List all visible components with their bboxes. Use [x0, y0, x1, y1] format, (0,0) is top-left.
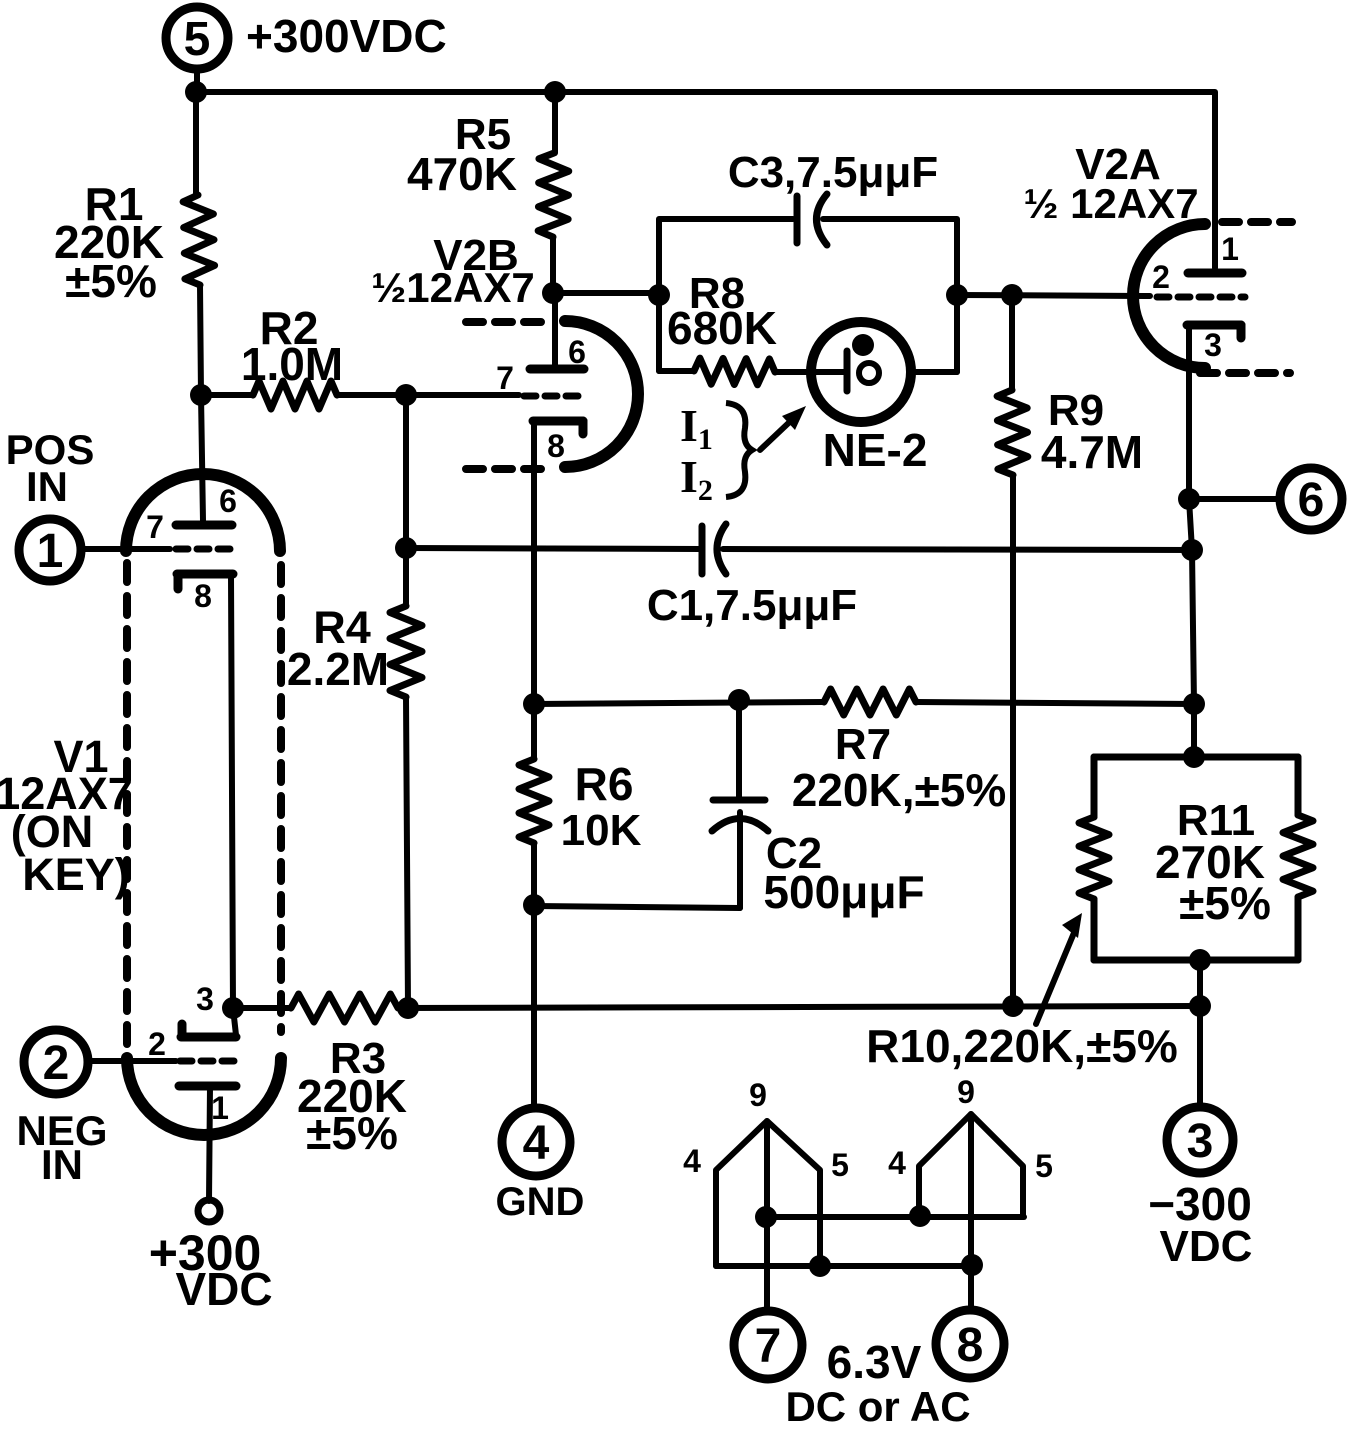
svg-text:C1,7.5μμF: C1,7.5μμF	[647, 581, 857, 630]
svg-text:220K,±5%: 220K,±5%	[792, 764, 1006, 816]
svg-text:+300VDC: +300VDC	[246, 10, 447, 62]
svg-text:VDC: VDC	[1160, 1222, 1253, 1271]
svg-text:R6: R6	[575, 758, 634, 810]
svg-text:GND: GND	[496, 1180, 585, 1224]
svg-text:1: 1	[37, 525, 64, 578]
svg-text:C3,7.5μμF: C3,7.5μμF	[728, 148, 938, 197]
svg-text:2: 2	[148, 1026, 166, 1062]
svg-text:5: 5	[1035, 1148, 1053, 1184]
svg-text:7: 7	[755, 1320, 782, 1373]
svg-text:5: 5	[831, 1147, 849, 1183]
svg-text:7: 7	[496, 360, 514, 396]
svg-text:2: 2	[1152, 259, 1170, 295]
svg-text:1: 1	[1221, 231, 1239, 267]
svg-text:3: 3	[196, 981, 214, 1017]
svg-text:VDC: VDC	[175, 1263, 272, 1315]
svg-text:8: 8	[194, 578, 212, 614]
svg-text:6.3V: 6.3V	[827, 1336, 922, 1388]
svg-text:R10,220K,±5%: R10,220K,±5%	[866, 1020, 1178, 1072]
svg-text:7: 7	[146, 509, 164, 545]
svg-text:±5%: ±5%	[65, 255, 157, 307]
svg-text:680K: 680K	[667, 302, 777, 354]
svg-text:6: 6	[1298, 474, 1325, 527]
svg-text:KEY): KEY)	[22, 849, 130, 900]
svg-text:2.2M: 2.2M	[287, 643, 389, 695]
svg-text:6: 6	[568, 334, 586, 370]
svg-text:4: 4	[523, 1117, 550, 1170]
svg-text:6: 6	[219, 483, 237, 519]
svg-text:3: 3	[1204, 327, 1222, 363]
svg-text:½12AX7: ½12AX7	[371, 264, 534, 311]
svg-text:½ 12AX7: ½ 12AX7	[1023, 180, 1198, 227]
svg-text:1: 1	[211, 1090, 229, 1126]
svg-text:3: 3	[1187, 1115, 1214, 1168]
svg-text:R7: R7	[835, 720, 891, 769]
svg-text:2: 2	[43, 1037, 70, 1090]
svg-text:8: 8	[957, 1319, 984, 1372]
svg-text:IN: IN	[26, 463, 68, 510]
svg-text:10K: 10K	[561, 806, 642, 855]
svg-text:4: 4	[888, 1145, 906, 1181]
svg-text:NE-2: NE-2	[823, 424, 928, 476]
svg-text:470K: 470K	[407, 148, 517, 200]
svg-text:9: 9	[749, 1077, 767, 1113]
svg-text:9: 9	[957, 1074, 975, 1110]
svg-text:±5%: ±5%	[1179, 877, 1271, 929]
svg-text:IN: IN	[41, 1141, 83, 1188]
svg-text:5: 5	[184, 13, 211, 66]
svg-text:1.0M: 1.0M	[241, 338, 343, 390]
svg-text:4: 4	[683, 1143, 701, 1179]
svg-text:±5%: ±5%	[306, 1107, 398, 1159]
svg-text:DC or AC: DC or AC	[785, 1383, 970, 1430]
svg-text:8: 8	[547, 428, 565, 464]
svg-text:500μμF: 500μμF	[763, 866, 924, 918]
svg-text:4.7M: 4.7M	[1041, 426, 1143, 478]
